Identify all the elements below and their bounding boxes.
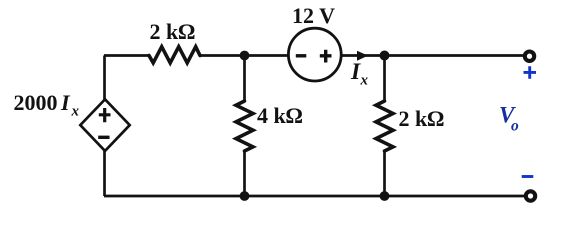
- left vertical wire lower: [103, 151, 106, 197]
- svg-text:2 kΩ: 2 kΩ: [399, 106, 445, 131]
- voltage source U1 12V circle: [288, 28, 341, 81]
- blue plus label: [524, 66, 537, 79]
- wire 12V source to node B: [341, 54, 385, 57]
- blue minus label: [522, 175, 534, 178]
- right vertical wire lower: [383, 151, 386, 197]
- svg-text:x: x: [71, 103, 80, 119]
- left vertical wire upper: [103, 56, 106, 101]
- current arrow Ix: [357, 51, 368, 61]
- junction node bottom-right: [380, 191, 390, 201]
- middle vertical wire upper: [243, 56, 246, 102]
- wire top-left horizontal: [104, 54, 150, 57]
- wire node B to plus terminal: [385, 54, 523, 57]
- svg-text:x: x: [360, 73, 369, 89]
- minus sign in diamond: [98, 136, 109, 139]
- right vertical wire upper: [383, 56, 386, 102]
- terminal minus (open circle): [526, 191, 535, 200]
- resistor R3 2 kOhm right: [376, 101, 393, 151]
- wire resistor to 12V source: [200, 54, 289, 57]
- terminal plus (open circle): [525, 52, 534, 61]
- plus sign in diamond: [99, 108, 111, 122]
- resistor R2 4 kOhm: [236, 101, 253, 151]
- junction node top-middle: [240, 51, 250, 61]
- svg-text:I: I: [60, 90, 71, 115]
- middle vertical wire lower: [243, 151, 246, 197]
- dependent source D1 diamond: [80, 99, 129, 151]
- bottom wire: [104, 195, 524, 198]
- junction node top-right: [380, 51, 390, 61]
- svg-text:o: o: [511, 118, 519, 135]
- minus sign inside 12V source: [296, 54, 307, 57]
- svg-text:2000: 2000: [14, 90, 58, 115]
- junction node bottom-middle: [240, 191, 250, 201]
- svg-text:12 V: 12 V: [292, 3, 335, 28]
- svg-text:2 kΩ: 2 kΩ: [150, 19, 196, 44]
- resistor R1 2 kOhm top: [149, 47, 200, 63]
- plus sign inside 12V source: [320, 50, 332, 63]
- svg-text:I: I: [350, 59, 361, 85]
- svg-text:4 kΩ: 4 kΩ: [257, 103, 303, 128]
